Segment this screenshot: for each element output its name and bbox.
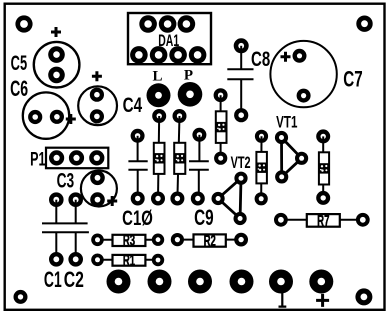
svg-text:VT1: VT1 [276, 114, 297, 133]
resistor R3 right pad [152, 234, 164, 246]
capacitor C7 polarity + [281, 52, 291, 62]
P1 pads [49, 150, 104, 165]
VT2 pads [212, 172, 248, 226]
svg-text:C6: C6 [10, 76, 28, 101]
resistor R3 wires [98, 239, 159, 241]
bottom pad [170, 192, 184, 206]
C9 wire bottom [198, 170, 200, 199]
resistor R5 top pad [214, 88, 228, 102]
resistor R2 wires [177, 239, 241, 241]
resistor under P top pad [173, 109, 187, 123]
resistor R5 body [216, 111, 227, 143]
svg-text:L: L [152, 68, 162, 84]
svg-text:P1: P1 [30, 149, 45, 170]
svg-text:C4: C4 [123, 92, 143, 116]
resistor R7 right pad [356, 213, 370, 227]
resistor R4 right body [319, 152, 330, 184]
C10 plate upper [128, 160, 147, 162]
C9 wire top [198, 135, 200, 162]
C6 pads [28, 110, 64, 124]
C8 wire bottom [240, 79, 242, 115]
svg-text:C7: C7 [343, 68, 362, 92]
C1/C2 top pads [49, 192, 83, 207]
capacitor C3 polarity + [107, 196, 117, 206]
C9 plate lower [189, 169, 209, 171]
svg-text:R7: R7 [317, 212, 329, 230]
DA1 pin pads top row [139, 15, 195, 33]
resistor R1 right pad [152, 254, 164, 266]
pad L [147, 83, 171, 107]
capacitor C6 outline [23, 92, 69, 138]
capacitor C4 polarity + [92, 71, 102, 81]
svg-text:C1Ø: C1Ø [122, 205, 153, 229]
wire [322, 136, 324, 198]
C7 pads [293, 49, 311, 103]
VT1 pads [275, 131, 308, 184]
resistor R3 body [113, 235, 146, 246]
resistor R7 body [307, 214, 340, 227]
resistor body under L [154, 143, 165, 174]
C9 plate upper [189, 160, 209, 162]
svg-text:R3: R3 [123, 231, 135, 249]
svg-text:DA1: DA1 [158, 32, 179, 50]
svg-text:R1: R1 [123, 251, 135, 269]
svg-text:C8: C8 [251, 46, 270, 70]
plus terminal label [316, 294, 329, 307]
C1/C2 bottom pads [49, 252, 83, 267]
svg-text:C9: C9 [194, 206, 214, 231]
mounting hole pad bottom-right [355, 288, 372, 305]
resistor R6 mid body [256, 152, 267, 184]
svg-text:C5: C5 [11, 51, 28, 75]
mounting hole pad bottom-left [14, 290, 28, 304]
R5 bottom pad [214, 152, 227, 165]
svg-text:P: P [184, 67, 193, 83]
IC DA1 outline box [128, 13, 211, 64]
wire [177, 116, 179, 199]
mounting hole pad top-left [15, 15, 32, 32]
mounting hole pad top-right [356, 16, 372, 32]
C8 plate lower [227, 78, 253, 80]
capacitor C4 outline [78, 86, 117, 125]
pad P [178, 82, 203, 107]
resistor R1 wires [98, 259, 159, 261]
C10 wire bottom [137, 170, 139, 199]
svg-text:VT2: VT2 [231, 153, 251, 172]
resistor R1 left pad [91, 253, 104, 266]
svg-text:R2: R2 [204, 232, 216, 250]
resistor R6 mid top pad [255, 130, 268, 143]
bottom pad [316, 191, 330, 205]
C8 wire top [240, 46, 242, 69]
transistor VT1 leads [282, 138, 302, 177]
wire C1 top [55, 200, 57, 224]
C1/C2 plate line upper [42, 222, 88, 224]
C9 bottom pad [191, 192, 205, 206]
capacitor C3 outline [81, 171, 117, 207]
wire [260, 136, 262, 199]
C3 pads [90, 171, 105, 207]
wire C2 bottom [75, 232, 77, 259]
DA1 pin pads bottom row [130, 46, 206, 64]
wire [158, 116, 159, 199]
C10 plate lower [128, 169, 147, 171]
ground symbol [279, 292, 287, 307]
resistor R4 right top pad [316, 129, 330, 143]
capacitor C5 outline [34, 42, 80, 88]
capacitor C9 top pad [192, 128, 206, 142]
transistor VT2 leads [218, 178, 241, 218]
resistor R1 body [113, 255, 146, 266]
wire C2 top [75, 200, 77, 224]
C10 wire top [137, 136, 139, 162]
C4 pads [90, 88, 104, 124]
C8 plate upper [227, 68, 253, 70]
capacitor C8 top pad [234, 38, 249, 53]
resistor R7 wires [281, 219, 363, 221]
resistor body under P [174, 143, 185, 174]
capacitor C5 polarity + [51, 27, 61, 37]
wire C1 bottom [55, 232, 57, 259]
capacitor C7 outline [270, 41, 336, 107]
capacitor C10 top pad [131, 129, 145, 143]
resistor R2 body [194, 234, 226, 246]
resistor R3 left pad [91, 234, 104, 247]
C5 pads [48, 46, 65, 83]
bottom pad [255, 192, 268, 205]
resistor under L top pad [152, 109, 166, 123]
R5 wire [220, 95, 222, 158]
resistor R2 left pad [171, 233, 184, 246]
bottom terminal pads row [107, 270, 334, 294]
connector P1 outline [46, 148, 108, 169]
capacitor C6 polarity + [66, 114, 76, 124]
C1/C2 plate line lower [42, 231, 89, 233]
svg-text:C2: C2 [64, 267, 84, 292]
resistor R2 right pad [234, 233, 248, 247]
C8 bottom pad [234, 108, 248, 122]
bottom pad [151, 192, 165, 206]
resistor R7 left pad [274, 213, 288, 227]
C10 bottom pad [131, 192, 145, 206]
svg-text:C3: C3 [57, 168, 75, 192]
svg-text:C1: C1 [44, 267, 62, 292]
